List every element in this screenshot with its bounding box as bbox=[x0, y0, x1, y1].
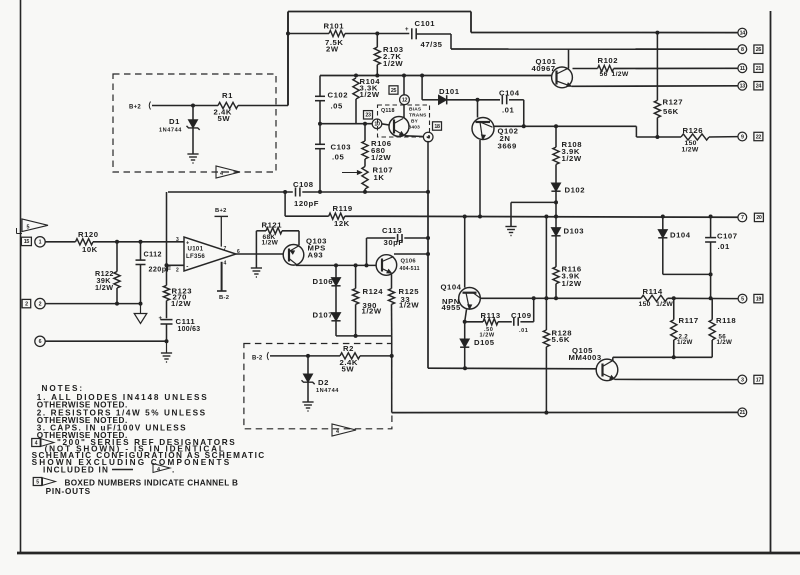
notes line 10 bbox=[32, 458, 232, 467]
label Q104 bbox=[441, 283, 462, 313]
capacitor C101 bbox=[405, 27, 416, 39]
svg-text:21: 21 bbox=[756, 66, 762, 72]
terminal circle 7 bbox=[738, 213, 747, 222]
svg-text:R118: R118 bbox=[716, 316, 736, 325]
node junction C113 left bbox=[365, 263, 369, 267]
flag note4 box2 bbox=[332, 424, 356, 436]
terminal box 24 bbox=[754, 82, 763, 90]
node junction Q105 collector line bbox=[672, 355, 676, 359]
wire D105 top bbox=[464, 322, 466, 339]
wire Q104 emitter bbox=[465, 310, 467, 322]
wire input line 6 bbox=[45, 340, 166, 342]
svg-text:D102: D102 bbox=[565, 186, 586, 195]
svg-text:C109: C109 bbox=[511, 311, 532, 320]
label C111 bbox=[176, 317, 201, 333]
node junction D102 stub bbox=[554, 200, 558, 204]
label bias trans bbox=[409, 107, 428, 131]
wire C109 right bbox=[520, 321, 533, 323]
label D106 bbox=[313, 277, 334, 286]
resistor R2 bbox=[340, 353, 360, 359]
wire D103 to R116 bbox=[555, 236, 557, 267]
label Q103 bbox=[306, 237, 327, 260]
svg-text:R127: R127 bbox=[663, 98, 684, 107]
wire R125 chain vertical bbox=[391, 336, 393, 413]
wire R119 down bbox=[284, 192, 286, 216]
svg-text:B+2: B+2 bbox=[129, 105, 141, 111]
svg-text:22: 22 bbox=[756, 134, 762, 140]
wire collector rail bbox=[494, 125, 637, 127]
svg-text:R124: R124 bbox=[363, 287, 384, 296]
svg-text:1/2W: 1/2W bbox=[562, 154, 582, 163]
svg-text:5: 5 bbox=[27, 225, 30, 231]
wire step down to line 8 bbox=[450, 34, 452, 49]
svg-text:R114: R114 bbox=[643, 287, 663, 296]
svg-text:20: 20 bbox=[756, 215, 762, 221]
svg-text:.05: .05 bbox=[331, 102, 344, 111]
wire C103 bottom bbox=[319, 149, 321, 192]
label D1 bbox=[159, 117, 182, 134]
capacitor C103 bbox=[315, 144, 325, 148]
diode D101 bbox=[439, 95, 447, 104]
label R116 bbox=[562, 265, 582, 289]
svg-text:R113: R113 bbox=[481, 311, 501, 320]
terminal box 19 bbox=[754, 294, 763, 302]
svg-text:R1: R1 bbox=[222, 91, 233, 100]
diode D107 bbox=[331, 313, 340, 321]
wire R2 right bbox=[360, 355, 392, 357]
svg-text:1N4744: 1N4744 bbox=[159, 128, 182, 134]
svg-text:1/2W: 1/2W bbox=[362, 307, 382, 316]
label C107 bbox=[717, 232, 738, 252]
diode D104 bbox=[658, 230, 667, 238]
wire long vertical bbox=[427, 192, 429, 368]
node junction R2 wire bbox=[390, 354, 394, 358]
transistor Q103 bbox=[283, 245, 304, 266]
wire R102 to terminal 11 bbox=[614, 67, 738, 69]
svg-text:1/2W: 1/2W bbox=[95, 283, 113, 292]
svg-text:C107: C107 bbox=[717, 232, 738, 241]
svg-text:.05: .05 bbox=[332, 153, 345, 162]
svg-text:1/2W: 1/2W bbox=[371, 153, 391, 162]
label R123 bbox=[171, 287, 192, 309]
wire D102 bottom bbox=[555, 191, 557, 216]
terminal circle 8 bbox=[738, 45, 747, 54]
resistor R121 bbox=[266, 228, 282, 234]
wire B+ vertical left bbox=[287, 12, 289, 106]
node junction R127 top bbox=[655, 31, 659, 35]
label R122 bbox=[95, 269, 114, 292]
svg-text:PIN-OUTS: PIN-OUTS bbox=[46, 487, 91, 496]
wire R120 to opamp bbox=[93, 241, 184, 243]
resistor R106 bbox=[362, 141, 368, 159]
svg-text:BY: BY bbox=[411, 119, 419, 125]
svg-text:10K: 10K bbox=[82, 245, 98, 254]
wire opamp pin2 bbox=[167, 264, 185, 266]
wire R2 left bbox=[270, 355, 340, 357]
svg-text:C103: C103 bbox=[331, 143, 352, 152]
label C112 bbox=[144, 250, 172, 274]
terminal circle 9 bbox=[738, 132, 747, 141]
svg-text:-: - bbox=[186, 264, 188, 271]
node junction base line left bbox=[318, 122, 322, 126]
svg-text:BIAS: BIAS bbox=[409, 107, 422, 113]
svg-text:R117: R117 bbox=[679, 316, 699, 325]
dashed box Q118 bbox=[378, 105, 430, 137]
svg-text:8: 8 bbox=[741, 47, 744, 53]
pin box 23 bbox=[364, 111, 373, 119]
svg-text:R101: R101 bbox=[324, 22, 345, 31]
border bottom bbox=[17, 552, 800, 555]
resistor R127 bbox=[654, 100, 660, 117]
wire Q102 base vertical bbox=[477, 100, 479, 118]
svg-text:15: 15 bbox=[24, 239, 30, 245]
label D103 bbox=[564, 227, 585, 236]
svg-text:4: 4 bbox=[220, 171, 223, 177]
svg-text:BOXED NUMBERS INDICATE CHANNEL: BOXED NUMBERS INDICATE CHANNEL B bbox=[65, 478, 239, 487]
resistor R119 bbox=[329, 213, 345, 219]
terminal circle 14 bbox=[738, 28, 747, 37]
label R1 bbox=[214, 91, 234, 123]
wire R113 left bbox=[465, 321, 483, 323]
svg-text:C104: C104 bbox=[499, 88, 520, 97]
capacitor C104 bbox=[502, 95, 506, 104]
svg-text:3: 3 bbox=[176, 237, 179, 243]
notes flag 5 bbox=[33, 478, 55, 486]
svg-text:3: 3 bbox=[741, 377, 744, 383]
svg-text:5: 5 bbox=[741, 296, 744, 302]
wire R121 down to Q103 bbox=[298, 231, 300, 245]
svg-text:1/2W: 1/2W bbox=[612, 71, 629, 78]
svg-text:12: 12 bbox=[402, 98, 408, 104]
svg-text:24: 24 bbox=[756, 84, 762, 90]
notes title bbox=[42, 384, 85, 393]
svg-text:+: + bbox=[159, 316, 163, 322]
node junction D105 bottom bbox=[463, 366, 467, 370]
svg-text:47/35: 47/35 bbox=[421, 40, 443, 49]
wire D104 top bbox=[662, 217, 664, 230]
pin box 18 bbox=[433, 122, 442, 130]
label U101 bbox=[186, 246, 205, 261]
zener diode D1 bbox=[187, 106, 200, 154]
label R101 bbox=[324, 22, 345, 54]
node junction C107 bottom bbox=[709, 296, 713, 300]
wire R106 to R107 bbox=[364, 159, 366, 167]
label R126 bbox=[682, 126, 704, 154]
svg-text:4: 4 bbox=[427, 135, 430, 141]
wire ground stub bbox=[510, 202, 512, 226]
wire line to terminal 8 bbox=[451, 48, 738, 50]
wire R114 to terminal 5 bbox=[668, 297, 738, 299]
notes line 8 bbox=[45, 445, 226, 454]
label Q101 bbox=[532, 57, 557, 73]
node junction pin2 bbox=[165, 263, 169, 267]
label C102 bbox=[328, 91, 349, 111]
wire top rail B+ horizontal bbox=[288, 11, 471, 13]
wire R101 left bbox=[288, 33, 329, 35]
svg-text:1/2W: 1/2W bbox=[677, 339, 693, 346]
svg-text:B-2: B-2 bbox=[252, 356, 263, 362]
wire R101 to C101 bbox=[345, 33, 409, 35]
resistor R116 bbox=[553, 267, 559, 284]
svg-text:4: 4 bbox=[224, 261, 227, 267]
wire to R126 bbox=[636, 136, 681, 138]
svg-text:21: 21 bbox=[740, 410, 746, 416]
label C101 bbox=[415, 19, 443, 49]
ground D1 bbox=[187, 154, 198, 163]
dashed box channel A supply 2 bbox=[244, 344, 392, 429]
svg-text:TRANS: TRANS bbox=[409, 113, 427, 119]
svg-text:26: 26 bbox=[756, 47, 762, 53]
label R125 bbox=[399, 287, 420, 310]
svg-text:C102: C102 bbox=[328, 91, 349, 100]
resistor R101 bbox=[329, 30, 345, 36]
svg-text:2: 2 bbox=[25, 301, 28, 307]
label Q106 bbox=[400, 259, 420, 273]
svg-text:56K: 56K bbox=[663, 107, 679, 116]
wire R126 to terminal 9 bbox=[709, 136, 738, 138]
wire Q105 emitter line bbox=[615, 378, 738, 380]
svg-text:5.6K: 5.6K bbox=[552, 335, 570, 344]
node junction C103 bottom bbox=[318, 190, 322, 194]
wire D104 to C107 bbox=[663, 273, 711, 275]
svg-text:C112: C112 bbox=[144, 250, 162, 259]
svg-text:+: + bbox=[405, 27, 409, 33]
svg-text:6: 6 bbox=[39, 339, 42, 345]
svg-text:7: 7 bbox=[741, 215, 744, 221]
svg-text:.01: .01 bbox=[502, 106, 515, 115]
op-amp U101 bbox=[184, 237, 236, 271]
label R2 bbox=[340, 344, 358, 374]
svg-text:30pF: 30pF bbox=[384, 238, 404, 247]
node junction Q104 base bbox=[463, 215, 467, 219]
notes line 6 bbox=[37, 431, 128, 440]
svg-text:1/2W: 1/2W bbox=[399, 301, 419, 310]
svg-text:4: 4 bbox=[336, 429, 339, 435]
wire Q106 collector bbox=[394, 253, 428, 255]
node junction R127 bottom bbox=[655, 135, 659, 139]
label C103 bbox=[331, 143, 352, 162]
power B+2 opamp bbox=[215, 208, 229, 247]
wire D101 right bbox=[448, 99, 478, 101]
label B-2 box2 bbox=[252, 352, 269, 362]
wire collector rail Q104 bbox=[480, 297, 641, 299]
power B-2 opamp bbox=[217, 262, 229, 301]
svg-text:1/2W: 1/2W bbox=[360, 90, 380, 99]
svg-text:.01: .01 bbox=[718, 242, 731, 251]
label D101 bbox=[439, 87, 460, 96]
wire C102 top bbox=[319, 76, 321, 97]
svg-text:100/63: 100/63 bbox=[178, 326, 201, 333]
wire circle4 down bbox=[427, 141, 429, 192]
notes line 12 bbox=[65, 478, 239, 487]
node junction Q106 collector bbox=[426, 252, 430, 256]
wire C104 down bbox=[523, 100, 525, 127]
svg-text:13: 13 bbox=[740, 84, 746, 90]
wire R119 left bbox=[285, 215, 329, 217]
svg-text:56: 56 bbox=[600, 71, 608, 78]
svg-text:D1: D1 bbox=[169, 117, 180, 126]
svg-text:D104: D104 bbox=[670, 231, 691, 240]
node junction Q102 base bbox=[476, 98, 480, 102]
wire R103 top bbox=[376, 34, 378, 48]
node junction long vertical top bbox=[426, 190, 430, 194]
svg-text:R120: R120 bbox=[78, 230, 99, 239]
svg-text:U101: U101 bbox=[188, 246, 204, 253]
svg-text:3669: 3669 bbox=[498, 142, 517, 151]
node junction chassis gnd bbox=[139, 302, 143, 306]
resistor R108 bbox=[553, 147, 559, 164]
wire R108 to D102 bbox=[555, 164, 557, 183]
terminal box 21 bbox=[754, 64, 763, 72]
resistor R125 bbox=[388, 275, 394, 336]
node junction R101 line at B+ vertical bbox=[286, 32, 290, 36]
svg-text:2: 2 bbox=[176, 268, 179, 274]
node junction C113 right bbox=[426, 236, 430, 240]
node junction R116 bottom bbox=[554, 296, 558, 300]
wire R104 bottom bbox=[355, 99, 357, 124]
resistor R102 bbox=[598, 65, 614, 71]
svg-text:3403: 3403 bbox=[409, 125, 421, 131]
wire top rail step down bbox=[470, 12, 472, 33]
wire R116 bottom bbox=[555, 284, 557, 299]
svg-text:1N4744: 1N4744 bbox=[316, 388, 339, 394]
svg-text:Q104: Q104 bbox=[441, 283, 462, 292]
svg-text:D106: D106 bbox=[313, 277, 334, 286]
wire rail to terminal 14 bbox=[471, 32, 738, 34]
wire D106 top bbox=[335, 265, 337, 277]
notes line 3 bbox=[37, 409, 207, 418]
wire input line 2 bbox=[45, 303, 140, 305]
wire bias line y75 bbox=[320, 75, 552, 77]
terminal circle 11 bbox=[738, 64, 747, 73]
svg-text:1K: 1K bbox=[374, 173, 385, 182]
wire D104 bottom bbox=[662, 238, 664, 275]
resistor R118 bbox=[709, 298, 715, 357]
node junction R103 top bbox=[375, 32, 379, 36]
node junction D104 top bbox=[661, 215, 665, 219]
svg-text:7: 7 bbox=[224, 246, 227, 252]
node junction D103 top bbox=[554, 215, 558, 219]
svg-text:1/2W: 1/2W bbox=[383, 59, 403, 68]
notes line 4 bbox=[37, 416, 128, 425]
node junction R128 top rail bbox=[544, 215, 548, 219]
svg-text:C113: C113 bbox=[382, 226, 402, 235]
resistor R120 bbox=[76, 239, 93, 245]
label R128 bbox=[552, 329, 573, 345]
wire C102 to C103 bbox=[319, 101, 321, 145]
node junction R124 top bbox=[354, 263, 358, 267]
label R103 bbox=[383, 45, 404, 68]
svg-text:C101: C101 bbox=[415, 19, 436, 28]
svg-text:40967: 40967 bbox=[532, 64, 556, 73]
pot arrow R107 bbox=[342, 171, 362, 175]
terminal box 2 bbox=[22, 299, 31, 307]
wire Q105 collector up bbox=[612, 357, 614, 361]
wire D101 vertical bbox=[421, 76, 423, 100]
svg-text:1: 1 bbox=[39, 240, 42, 246]
terminal circle 21 bottom bbox=[738, 408, 747, 417]
wire D103 top bbox=[555, 217, 557, 228]
pin circle 4 bbox=[423, 132, 433, 142]
notes line 13 bbox=[46, 487, 91, 496]
node junction D1 top bbox=[191, 104, 195, 108]
capacitor C107 bbox=[705, 217, 716, 299]
terminal box 26 bbox=[754, 45, 763, 53]
svg-text:C108: C108 bbox=[293, 180, 314, 189]
label R107 bbox=[373, 166, 394, 183]
capacitor C112 bbox=[136, 242, 146, 304]
svg-text:18: 18 bbox=[434, 124, 440, 130]
wire R1 right bbox=[238, 105, 288, 107]
transistor Q101 bbox=[552, 67, 573, 88]
label R121 bbox=[262, 221, 283, 247]
diode D106 bbox=[331, 278, 340, 286]
svg-text:5W: 5W bbox=[342, 365, 355, 374]
label C113 bbox=[382, 226, 404, 247]
svg-text:D107: D107 bbox=[313, 311, 334, 320]
diode D105 bbox=[460, 339, 469, 347]
capacitor C111 bbox=[159, 316, 173, 341]
svg-text:INCLUDED IN: INCLUDED IN bbox=[43, 465, 109, 474]
wire Q101 emitter line to terminal 13 bbox=[572, 85, 738, 88]
wire R117 R118 bottom bbox=[613, 356, 712, 358]
svg-text:23: 23 bbox=[365, 113, 371, 119]
terminal circle 5 bbox=[738, 294, 747, 303]
wire R127 bottom bbox=[656, 118, 658, 137]
terminal box 17 bbox=[754, 375, 763, 383]
wire C113 left vertical bbox=[366, 238, 368, 265]
node junction R103 bottom bbox=[375, 74, 379, 78]
node junction R128 top bbox=[544, 296, 548, 300]
capacitor C108 bbox=[296, 188, 300, 197]
node junction C112 top bbox=[139, 240, 143, 244]
wire R113 to C109 bbox=[498, 321, 512, 323]
wire R1 left bbox=[152, 105, 218, 107]
wire diode chain bottom bbox=[336, 335, 392, 337]
transistor Q106 bbox=[376, 255, 397, 276]
border right bbox=[770, 11, 772, 552]
svg-text:Q106: Q106 bbox=[401, 259, 417, 265]
node junction D2 top bbox=[306, 354, 310, 358]
node junction R107 bottom bbox=[363, 190, 367, 194]
svg-text:B-2: B-2 bbox=[219, 295, 229, 301]
wire circle10 to base bbox=[382, 124, 390, 125]
svg-text:1/2W: 1/2W bbox=[562, 279, 582, 288]
terminal box 20 bbox=[754, 213, 763, 221]
capacitor C102 bbox=[315, 96, 325, 100]
svg-text:+: + bbox=[186, 241, 189, 247]
node junction R106 top bbox=[363, 122, 367, 126]
ground mid bbox=[505, 227, 516, 236]
svg-text:R121: R121 bbox=[262, 221, 283, 230]
wire D107 bottom bbox=[335, 321, 337, 336]
wire R106 top bbox=[364, 124, 366, 141]
node junction R122 top bbox=[115, 240, 119, 244]
node junction R117 top bbox=[672, 296, 676, 300]
label R106 bbox=[371, 139, 392, 162]
resistor R124 bbox=[353, 265, 359, 336]
capacitor C113 bbox=[398, 234, 402, 242]
svg-text:D103: D103 bbox=[564, 227, 585, 236]
label R108 bbox=[562, 140, 583, 163]
label D104 bbox=[670, 231, 691, 240]
node junction D101 branch bbox=[420, 74, 424, 78]
resistor R114 bbox=[641, 295, 668, 301]
label D105 bbox=[474, 338, 495, 347]
label R127 bbox=[663, 98, 684, 117]
svg-text:9: 9 bbox=[741, 134, 744, 140]
svg-text:LF356: LF356 bbox=[186, 253, 205, 260]
